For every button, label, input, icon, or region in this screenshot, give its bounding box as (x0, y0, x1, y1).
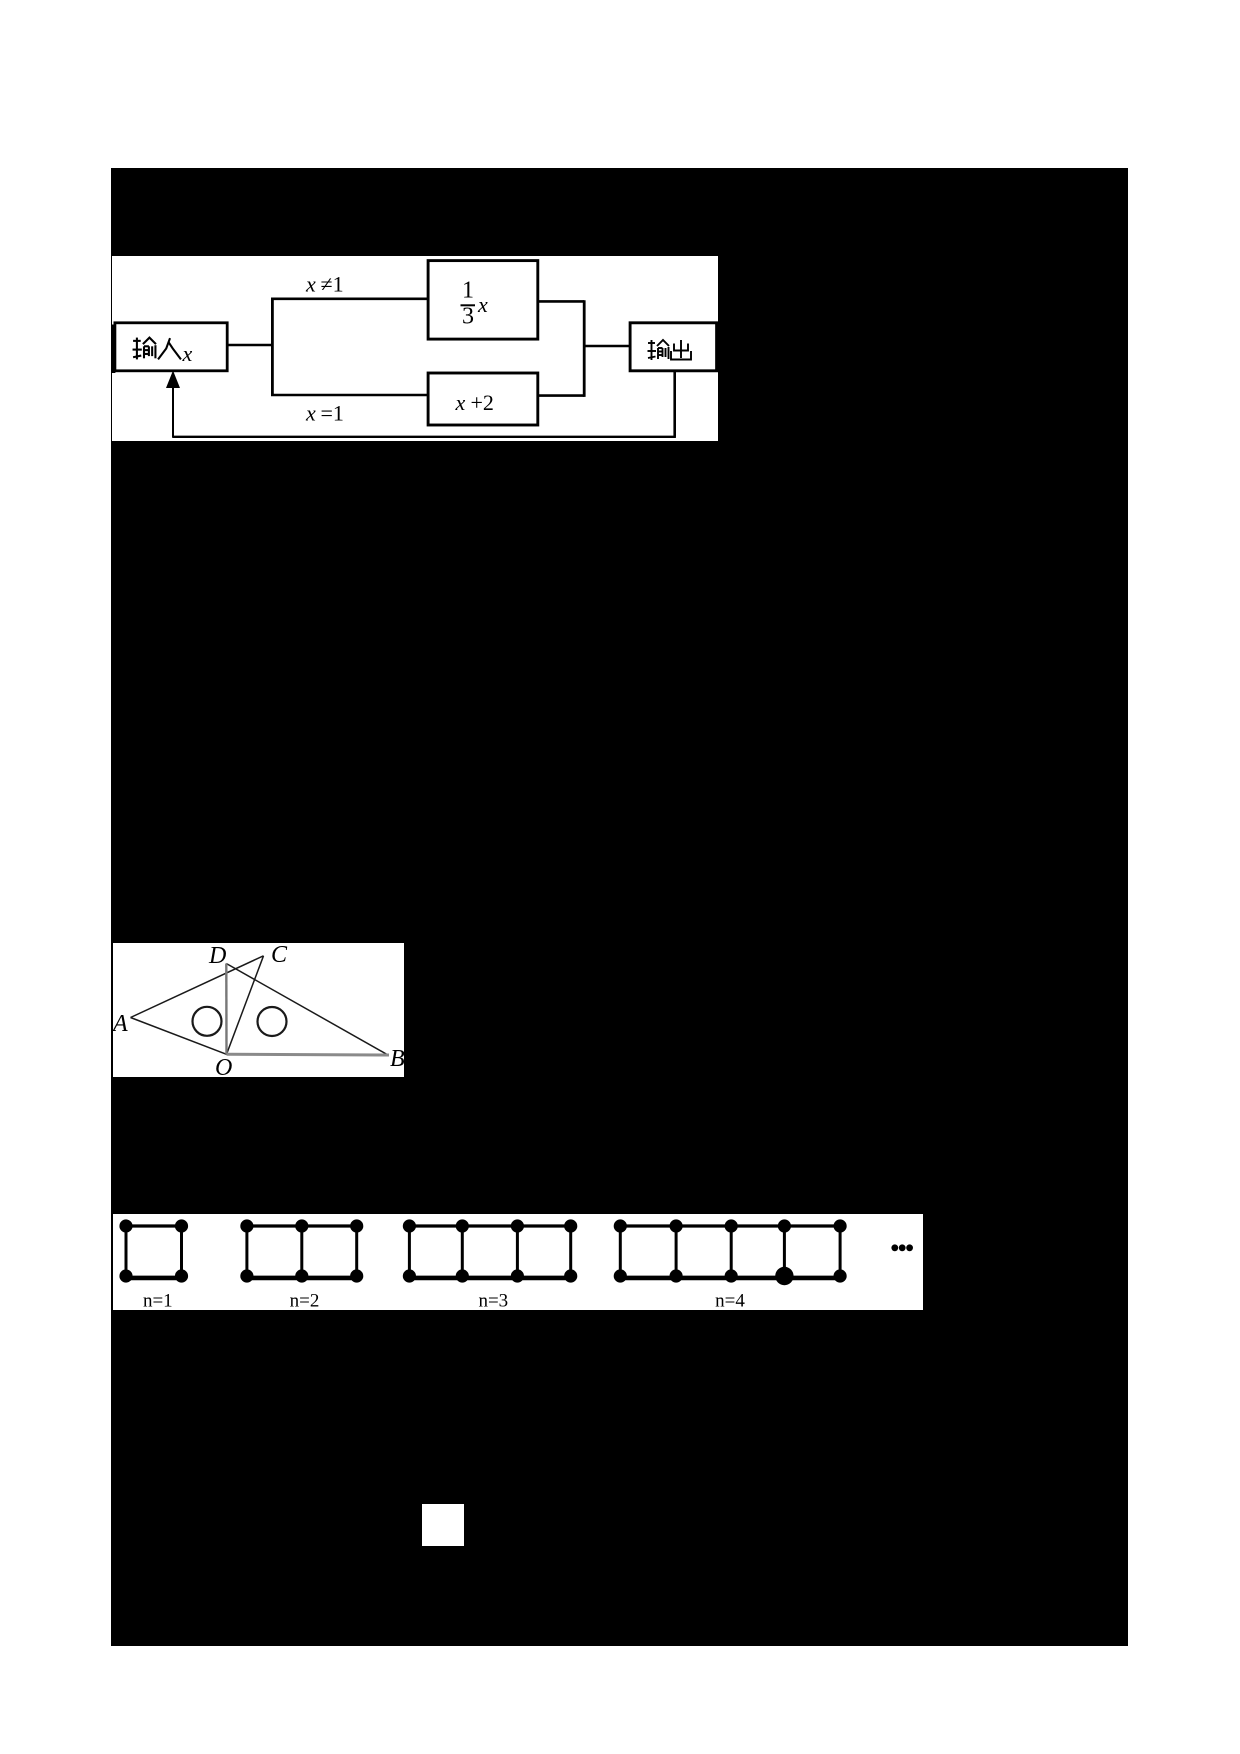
flowchart white panel (112, 256, 718, 441)
box: one-third x (428, 261, 538, 340)
wire: bottom branch (271, 394, 428, 397)
thick left bar of input box (112, 325, 115, 374)
segment O to B (grey) (227, 1053, 390, 1057)
wire: feedback horizontal (173, 436, 676, 438)
svg-text:O: O (215, 1055, 232, 1077)
ladder n=3 (409, 1224, 570, 1227)
wire: top branch (271, 297, 428, 300)
svg-text:n=1: n=1 (143, 1291, 173, 1311)
svg-text:x: x (305, 272, 316, 297)
svg-text:n=4: n=4 (715, 1291, 745, 1311)
glyph: chu (out) (671, 340, 691, 360)
node: merge vertical (583, 300, 586, 397)
ladder sequence white panel (113, 1214, 923, 1310)
glyph: ru (enter) (158, 338, 181, 359)
svg-text:n=2: n=2 (290, 1291, 320, 1311)
wire: feedback up into input (172, 387, 174, 438)
small white square (422, 1504, 464, 1546)
svg-text:x: x (182, 341, 193, 366)
glyph: shu (output) (648, 340, 670, 360)
box: output (630, 323, 717, 371)
wire: box1 right to merge (538, 300, 584, 303)
black content block (111, 168, 1128, 1646)
svg-text:≠1: ≠1 (321, 272, 344, 297)
svg-text:x: x (477, 292, 488, 317)
svg-text:x: x (455, 390, 466, 415)
box: input (115, 323, 227, 371)
box: x plus 2 (428, 373, 538, 425)
line O to C (227, 956, 264, 1055)
svg-text:D: D (208, 943, 226, 969)
svg-text:B: B (390, 1046, 404, 1072)
ladder n=4 (620, 1224, 840, 1227)
wire: input to branch (227, 344, 272, 347)
line A to O (131, 1018, 227, 1055)
angle circle right (258, 1007, 287, 1036)
svg-text:x: x (305, 401, 316, 426)
ladder n=2 (247, 1224, 357, 1227)
node: branch vertical (271, 299, 274, 395)
ladder n=1 (126, 1224, 182, 1227)
wire: merge to output (584, 345, 630, 348)
svg-text:1: 1 (462, 278, 474, 304)
svg-text:=1: =1 (321, 401, 344, 426)
svg-text:C: C (271, 943, 288, 968)
glyph: shu (input) (133, 338, 156, 360)
svg-text:n=3: n=3 (478, 1291, 508, 1311)
svg-text:+2: +2 (471, 390, 494, 415)
svg-text:A: A (113, 1011, 128, 1037)
segment O to D (grey) (225, 964, 228, 1055)
wire: box2 right to merge (538, 394, 584, 397)
line D to B (226, 964, 388, 1056)
angle circle left (193, 1007, 222, 1036)
ellipsis dots (891, 1244, 898, 1251)
arrowhead into input box (166, 371, 180, 389)
line A to C (131, 956, 264, 1018)
wire: feedback down from output (673, 371, 676, 437)
svg-text:3: 3 (462, 304, 474, 330)
geometry figure white panel (113, 943, 404, 1077)
